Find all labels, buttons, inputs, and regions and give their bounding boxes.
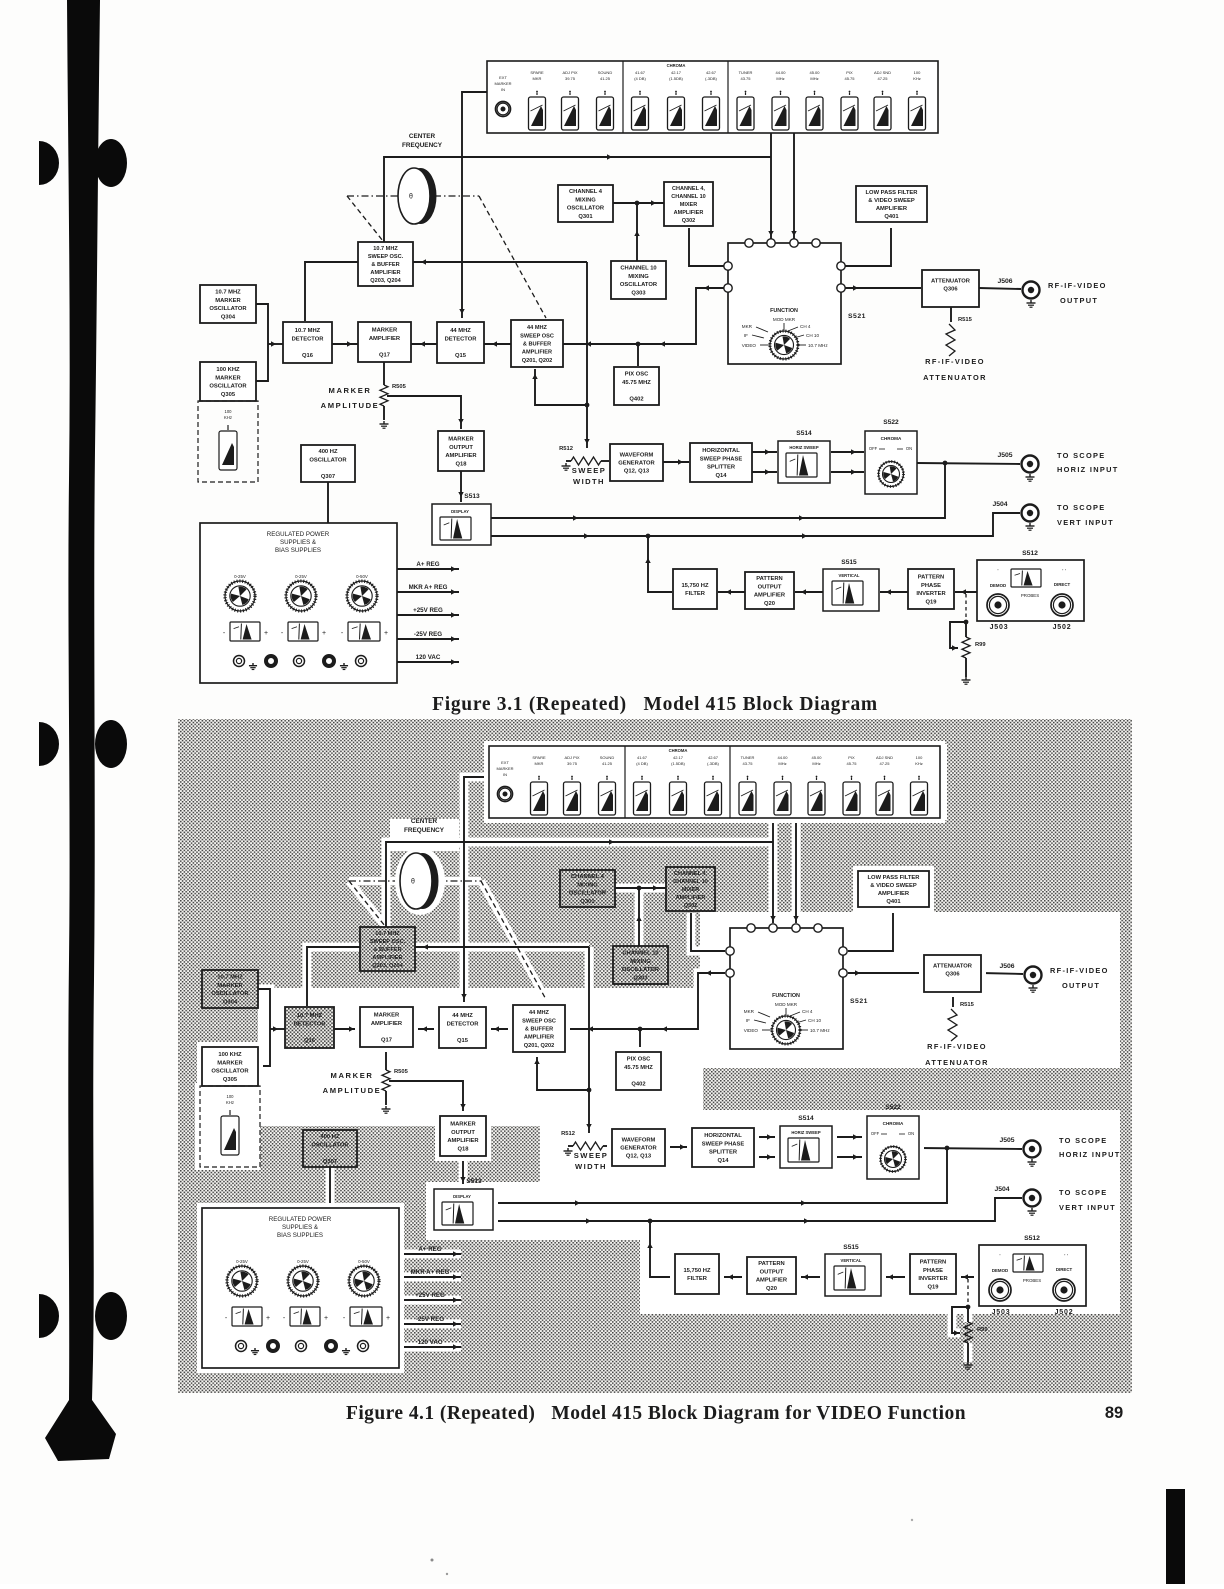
svg-text:Q304: Q304 bbox=[221, 314, 236, 320]
svg-text:R515: R515 bbox=[960, 1002, 975, 1008]
svg-text:REGULATED POWER: REGULATED POWER bbox=[269, 1216, 332, 1223]
svg-text:S513: S513 bbox=[466, 1178, 482, 1185]
svg-text:MOD MKR: MOD MKR bbox=[775, 1002, 798, 1007]
svg-text:S514: S514 bbox=[796, 430, 812, 437]
svg-text:R505: R505 bbox=[394, 1069, 409, 1075]
svg-text:ATTENUATOR: ATTENUATOR bbox=[925, 1058, 989, 1067]
svg-text:+: + bbox=[322, 630, 326, 637]
svg-text:AMPLITUDE: AMPLITUDE bbox=[321, 401, 380, 410]
svg-text:100 KHZ: 100 KHZ bbox=[216, 367, 240, 373]
svg-text:100: 100 bbox=[225, 409, 233, 414]
svg-text:FUNCTION: FUNCTION bbox=[772, 993, 800, 999]
svg-text:+: + bbox=[264, 630, 268, 637]
svg-text:(1.5DB): (1.5DB) bbox=[671, 761, 685, 766]
svg-text:SWEEP OSC.: SWEEP OSC. bbox=[370, 939, 406, 945]
svg-text:CHROMA: CHROMA bbox=[667, 63, 686, 68]
svg-text:10.7 MHZ: 10.7 MHZ bbox=[217, 975, 243, 981]
svg-text:CENTER: CENTER bbox=[409, 133, 436, 140]
svg-text:Q20: Q20 bbox=[764, 601, 775, 607]
svg-text:IF: IF bbox=[744, 333, 748, 338]
svg-text:42.67: 42.67 bbox=[706, 70, 717, 75]
svg-text:DIRECT: DIRECT bbox=[1056, 1267, 1073, 1272]
svg-text:MARKER: MARKER bbox=[331, 1071, 374, 1080]
svg-text:DISPLAY: DISPLAY bbox=[453, 1194, 471, 1199]
svg-text:SWEEP OSC: SWEEP OSC bbox=[522, 1018, 556, 1024]
svg-text:INVERTER: INVERTER bbox=[916, 591, 946, 597]
svg-text:& VIDEO SWEEP: & VIDEO SWEEP bbox=[870, 883, 917, 889]
svg-text:MHz: MHz bbox=[776, 76, 784, 81]
svg-text:41.67: 41.67 bbox=[637, 755, 648, 760]
svg-text:FUNCTION: FUNCTION bbox=[770, 308, 798, 314]
svg-text:PATTERN: PATTERN bbox=[918, 575, 945, 581]
svg-text:' ': ' ' bbox=[1062, 569, 1065, 575]
svg-text:Q302: Q302 bbox=[684, 903, 697, 909]
svg-text:CHROMA: CHROMA bbox=[669, 748, 688, 753]
svg-text:& BUFFER: & BUFFER bbox=[523, 341, 551, 347]
svg-text:PIX OSC: PIX OSC bbox=[625, 372, 649, 378]
svg-text:MARKER: MARKER bbox=[494, 81, 511, 86]
svg-text:θ: θ bbox=[409, 194, 413, 201]
svg-text:Q203, Q204: Q203, Q204 bbox=[370, 278, 401, 284]
svg-text:DISPLAY: DISPLAY bbox=[451, 509, 469, 514]
svg-text:PATTERN: PATTERN bbox=[756, 576, 783, 582]
svg-text:ATTENUATOR: ATTENUATOR bbox=[933, 963, 973, 969]
svg-text:0-50V: 0-50V bbox=[358, 1259, 370, 1264]
svg-text:RF-IF-VIDEO: RF-IF-VIDEO bbox=[1050, 966, 1109, 975]
svg-text:(1.5DB): (1.5DB) bbox=[669, 76, 683, 81]
svg-text:S521: S521 bbox=[848, 313, 866, 320]
svg-text:A+ REG: A+ REG bbox=[416, 561, 439, 568]
svg-text:Q201, Q202: Q201, Q202 bbox=[524, 1043, 554, 1049]
svg-text:WIDTH: WIDTH bbox=[575, 1162, 607, 1171]
svg-text:39.75: 39.75 bbox=[567, 761, 578, 766]
svg-text:(4 DB): (4 DB) bbox=[636, 761, 648, 766]
svg-text:J506: J506 bbox=[999, 963, 1014, 970]
svg-text:AMPLIFIER: AMPLIFIER bbox=[447, 1138, 479, 1144]
svg-text:Q17: Q17 bbox=[379, 352, 390, 358]
svg-text:RF-IF-VIDEO: RF-IF-VIDEO bbox=[927, 1042, 987, 1051]
svg-text:Q306: Q306 bbox=[945, 972, 960, 978]
svg-text:TUNER: TUNER bbox=[739, 70, 753, 75]
svg-text:DEMOD: DEMOD bbox=[992, 1268, 1008, 1273]
svg-text:VIDEO: VIDEO bbox=[742, 343, 757, 348]
svg-text:PHASE: PHASE bbox=[921, 583, 941, 589]
svg-text:MARKER: MARKER bbox=[450, 1122, 476, 1128]
svg-text:45.75: 45.75 bbox=[846, 761, 857, 766]
svg-text:AMPLIFIER: AMPLIFIER bbox=[369, 336, 401, 342]
svg-text:SOUND: SOUND bbox=[600, 755, 615, 760]
svg-text:& VIDEO SWEEP: & VIDEO SWEEP bbox=[868, 198, 915, 204]
svg-text:MIXER: MIXER bbox=[682, 887, 699, 893]
svg-text:WAVEFORM: WAVEFORM bbox=[622, 1137, 656, 1143]
svg-text:MARKER: MARKER bbox=[329, 386, 372, 395]
svg-text:DETECTOR: DETECTOR bbox=[445, 336, 478, 342]
svg-text:J503: J503 bbox=[990, 624, 1009, 631]
svg-text:PIX: PIX bbox=[846, 70, 853, 75]
svg-text:MHz: MHz bbox=[810, 76, 818, 81]
svg-text:Q302: Q302 bbox=[682, 218, 695, 224]
svg-text:Q402: Q402 bbox=[629, 396, 643, 402]
svg-text:Q12, Q13: Q12, Q13 bbox=[626, 1154, 652, 1160]
svg-text:120 VAC: 120 VAC bbox=[418, 1339, 443, 1346]
svg-text:Figure 3.1 (Repeated) Model: Figure 3.1 (Repeated) Model 415 Block Di… bbox=[432, 694, 878, 715]
svg-text:IN: IN bbox=[501, 87, 505, 92]
svg-text:Q306: Q306 bbox=[943, 287, 958, 293]
svg-text:Q14: Q14 bbox=[718, 1158, 730, 1164]
svg-text:Q19: Q19 bbox=[926, 599, 938, 605]
svg-text:AMPLIFIER: AMPLIFIER bbox=[754, 593, 786, 599]
svg-text:44.00: 44.00 bbox=[777, 755, 788, 760]
svg-text:PATTERN: PATTERN bbox=[758, 1261, 785, 1267]
svg-text:J506: J506 bbox=[997, 278, 1012, 285]
svg-text:CHANNEL 10: CHANNEL 10 bbox=[620, 266, 656, 272]
svg-text:AMPLIFIER: AMPLIFIER bbox=[371, 1021, 403, 1027]
svg-text:45.00: 45.00 bbox=[809, 70, 820, 75]
svg-text:Q303: Q303 bbox=[633, 975, 648, 981]
svg-text:MARKER: MARKER bbox=[496, 766, 513, 771]
svg-text:MARKER: MARKER bbox=[374, 1013, 400, 1019]
svg-text:-25V REG: -25V REG bbox=[416, 1316, 444, 1323]
svg-text:OUTPUT: OUTPUT bbox=[1060, 296, 1098, 305]
svg-text:TUNER: TUNER bbox=[741, 755, 755, 760]
svg-text:100: 100 bbox=[914, 70, 921, 75]
svg-text:KHz: KHz bbox=[224, 415, 232, 420]
svg-text:MKR A+ REG: MKR A+ REG bbox=[409, 584, 448, 591]
svg-text:0-25V: 0-25V bbox=[234, 574, 246, 579]
svg-text:SWEEP OSC: SWEEP OSC bbox=[520, 333, 554, 339]
svg-text:CHANNEL 4: CHANNEL 4 bbox=[569, 189, 603, 195]
svg-text:S522: S522 bbox=[885, 1104, 901, 1111]
svg-text:J504: J504 bbox=[994, 1186, 1009, 1193]
svg-text:47.25: 47.25 bbox=[877, 76, 888, 81]
svg-text:MOD MKR: MOD MKR bbox=[773, 317, 796, 322]
svg-text:IN: IN bbox=[503, 772, 507, 777]
svg-text:J505: J505 bbox=[997, 452, 1012, 459]
svg-text:AMPLIFIER: AMPLIFIER bbox=[878, 891, 910, 897]
svg-text:OUTPUT: OUTPUT bbox=[449, 445, 473, 451]
svg-text:WIDTH: WIDTH bbox=[573, 477, 605, 486]
svg-text:IF: IF bbox=[746, 1018, 750, 1023]
svg-text:S515: S515 bbox=[841, 559, 857, 566]
svg-text:WAVEFORM: WAVEFORM bbox=[620, 452, 654, 458]
svg-text:R99: R99 bbox=[977, 1327, 988, 1333]
svg-text:120 VAC: 120 VAC bbox=[416, 654, 441, 661]
svg-text:10.7 MHz: 10.7 MHz bbox=[808, 343, 828, 348]
svg-text:44.00: 44.00 bbox=[775, 70, 786, 75]
svg-text:Q307: Q307 bbox=[323, 1159, 337, 1165]
svg-text:PROBES: PROBES bbox=[1021, 593, 1039, 598]
svg-text:43.75: 43.75 bbox=[742, 761, 753, 766]
svg-text:47.25: 47.25 bbox=[879, 761, 890, 766]
svg-text:AMPLIFIER: AMPLIFIER bbox=[674, 210, 704, 216]
svg-text:MARKER: MARKER bbox=[215, 375, 241, 381]
svg-text:& BUFFER: & BUFFER bbox=[525, 1026, 553, 1032]
svg-text:10.7 MHZ: 10.7 MHZ bbox=[373, 246, 398, 252]
svg-text:& BUFFER: & BUFFER bbox=[373, 947, 401, 953]
svg-text:ON: ON bbox=[908, 1131, 914, 1136]
svg-text:MIXER: MIXER bbox=[680, 202, 697, 208]
svg-text:J502: J502 bbox=[1055, 1309, 1074, 1316]
svg-text:ADJ PIX: ADJ PIX bbox=[562, 70, 577, 75]
svg-text:S513: S513 bbox=[464, 493, 480, 500]
svg-text:FREQUENCY: FREQUENCY bbox=[402, 142, 443, 149]
svg-text:OSCILLATOR: OSCILLATOR bbox=[209, 384, 247, 390]
svg-text:100: 100 bbox=[227, 1094, 235, 1099]
svg-text:MARKER: MARKER bbox=[448, 437, 474, 443]
svg-text:10.7 MHZ: 10.7 MHZ bbox=[215, 290, 241, 296]
svg-text:ADJ PIX: ADJ PIX bbox=[564, 755, 579, 760]
svg-text:OSCILLATOR: OSCILLATOR bbox=[620, 282, 658, 288]
svg-text:SUPPLIES &: SUPPLIES & bbox=[280, 539, 317, 546]
svg-text:HORIZONTAL: HORIZONTAL bbox=[702, 448, 740, 454]
svg-text:100 KHZ: 100 KHZ bbox=[218, 1052, 242, 1058]
svg-text:R99: R99 bbox=[975, 642, 986, 648]
svg-text:AMPLITUDE: AMPLITUDE bbox=[323, 1086, 382, 1095]
svg-text:(4 DB): (4 DB) bbox=[634, 76, 646, 81]
svg-text:': ' bbox=[998, 569, 999, 575]
svg-text:ATTENUATOR: ATTENUATOR bbox=[931, 278, 971, 284]
svg-text:TO SCOPE: TO SCOPE bbox=[1059, 1188, 1107, 1197]
svg-text:SWEEP: SWEEP bbox=[574, 1151, 608, 1160]
svg-text:TO SCOPE: TO SCOPE bbox=[1057, 451, 1105, 460]
svg-text:OSCILLATOR: OSCILLATOR bbox=[211, 1069, 249, 1075]
svg-text:Q307: Q307 bbox=[321, 474, 335, 480]
svg-text:Q201, Q202: Q201, Q202 bbox=[522, 358, 552, 364]
svg-text:S514: S514 bbox=[798, 1115, 814, 1122]
svg-text:Q16: Q16 bbox=[302, 353, 314, 359]
svg-text:Q14: Q14 bbox=[716, 473, 728, 479]
svg-text:OSCILLATOR: OSCILLATOR bbox=[622, 967, 660, 973]
svg-text:SPLITTER: SPLITTER bbox=[709, 1150, 738, 1156]
svg-text:OUTPUT: OUTPUT bbox=[1062, 981, 1100, 990]
svg-text:RF-IF-VIDEO: RF-IF-VIDEO bbox=[1048, 281, 1107, 290]
svg-text:44 MHZ: 44 MHZ bbox=[529, 1010, 549, 1016]
svg-text:43.75: 43.75 bbox=[740, 76, 751, 81]
svg-text:MIXING: MIXING bbox=[628, 274, 649, 280]
svg-text:+: + bbox=[384, 630, 388, 637]
svg-text:KHz: KHz bbox=[913, 76, 921, 81]
svg-text:S521: S521 bbox=[850, 998, 868, 1005]
svg-text:+: + bbox=[324, 1315, 328, 1322]
svg-text:41.25: 41.25 bbox=[600, 76, 611, 81]
svg-text:KHz: KHz bbox=[226, 1100, 234, 1105]
svg-text:AMPLIFIER: AMPLIFIER bbox=[876, 206, 908, 212]
svg-text:MHz: MHz bbox=[812, 761, 820, 766]
svg-text:Q18: Q18 bbox=[458, 1146, 470, 1152]
svg-text:MIXING: MIXING bbox=[630, 959, 651, 965]
svg-text:HORIZ INPUT: HORIZ INPUT bbox=[1059, 1150, 1121, 1159]
svg-text:Q203, Q204: Q203, Q204 bbox=[372, 963, 403, 969]
svg-text:AMPLIFIER: AMPLIFIER bbox=[370, 270, 400, 276]
svg-text:MARKER: MARKER bbox=[217, 983, 243, 989]
svg-text:OFF: OFF bbox=[869, 446, 878, 451]
svg-text:Q16: Q16 bbox=[304, 1038, 316, 1044]
svg-text:Q18: Q18 bbox=[456, 461, 468, 467]
svg-text:Q15: Q15 bbox=[457, 1038, 469, 1044]
svg-text:HORIZ SWEEP: HORIZ SWEEP bbox=[791, 1130, 821, 1135]
svg-text:J502: J502 bbox=[1053, 624, 1072, 631]
svg-text:DETECTOR: DETECTOR bbox=[292, 336, 325, 342]
svg-text:44 MHZ: 44 MHZ bbox=[450, 328, 471, 334]
svg-text:100: 100 bbox=[916, 755, 923, 760]
svg-text:SPARE: SPARE bbox=[532, 755, 546, 760]
svg-text:DETECTOR: DETECTOR bbox=[447, 1021, 480, 1027]
svg-text:EXT: EXT bbox=[501, 760, 509, 765]
svg-text:SWEEP OSC.: SWEEP OSC. bbox=[368, 254, 404, 260]
svg-text:MARKER: MARKER bbox=[372, 328, 398, 334]
svg-text:15,750 HZ: 15,750 HZ bbox=[681, 583, 709, 589]
svg-text:θ: θ bbox=[411, 879, 415, 886]
svg-text:AMPLIFIER: AMPLIFIER bbox=[445, 453, 477, 459]
svg-text:Q304: Q304 bbox=[223, 999, 238, 1005]
svg-text:KHz: KHz bbox=[915, 761, 923, 766]
svg-text:400 HZ: 400 HZ bbox=[318, 449, 337, 455]
svg-text:FILTER: FILTER bbox=[687, 1276, 708, 1282]
svg-text:' ': ' ' bbox=[1064, 1254, 1067, 1260]
svg-text:CENTER: CENTER bbox=[411, 818, 438, 825]
svg-text:BIAS SUPPLIES: BIAS SUPPLIES bbox=[277, 1232, 323, 1239]
svg-text:44 MHZ: 44 MHZ bbox=[527, 325, 547, 331]
svg-text:45.75: 45.75 bbox=[844, 76, 855, 81]
svg-text:45.75 MHZ: 45.75 MHZ bbox=[622, 380, 651, 386]
svg-text:Q17: Q17 bbox=[381, 1037, 392, 1043]
svg-text:PHASE: PHASE bbox=[923, 1268, 943, 1274]
svg-text:CHANNEL 4,: CHANNEL 4, bbox=[674, 871, 707, 877]
svg-text:EXT: EXT bbox=[499, 75, 507, 80]
svg-text:MKR: MKR bbox=[533, 76, 542, 81]
svg-text:SWEEP PHASE: SWEEP PHASE bbox=[700, 456, 743, 462]
svg-text:PIX OSC: PIX OSC bbox=[627, 1057, 651, 1063]
svg-text:DIRECT: DIRECT bbox=[1054, 582, 1071, 587]
svg-text:0-25V: 0-25V bbox=[297, 1259, 309, 1264]
svg-text:LOW PASS FILTER: LOW PASS FILTER bbox=[866, 190, 919, 196]
svg-text:J505: J505 bbox=[999, 1137, 1014, 1144]
svg-text:AMPLIFIER: AMPLIFIER bbox=[372, 955, 402, 961]
svg-text:OUTPUT: OUTPUT bbox=[760, 1269, 784, 1275]
svg-text:MIXING: MIXING bbox=[577, 882, 598, 888]
svg-text:CHANNEL 10: CHANNEL 10 bbox=[622, 951, 658, 957]
svg-text:(-3DB): (-3DB) bbox=[705, 76, 717, 81]
svg-text:CH 10: CH 10 bbox=[806, 333, 819, 338]
svg-text:PATTERN: PATTERN bbox=[920, 1260, 947, 1266]
svg-text:GENERATOR: GENERATOR bbox=[618, 461, 655, 467]
svg-text:CHROMA: CHROMA bbox=[881, 436, 902, 441]
svg-text:ON: ON bbox=[906, 446, 912, 451]
svg-text:S522: S522 bbox=[883, 419, 899, 426]
svg-text:OSCILLATOR: OSCILLATOR bbox=[209, 306, 247, 312]
svg-text:J503: J503 bbox=[992, 1309, 1011, 1316]
svg-text:SWEEP PHASE: SWEEP PHASE bbox=[702, 1141, 745, 1147]
svg-text:39.75: 39.75 bbox=[565, 76, 576, 81]
svg-text:HORIZ SWEEP: HORIZ SWEEP bbox=[789, 445, 819, 450]
svg-text:R512: R512 bbox=[559, 446, 573, 452]
svg-text:Figure 4.1 (Repeated) Model: Figure 4.1 (Repeated) Model 415 Block Di… bbox=[346, 1403, 966, 1424]
svg-text:TO SCOPE: TO SCOPE bbox=[1059, 1136, 1107, 1145]
svg-text:10.7 MHZ: 10.7 MHZ bbox=[297, 1013, 323, 1019]
svg-text:400 HZ: 400 HZ bbox=[320, 1134, 339, 1140]
svg-text:CH 4: CH 4 bbox=[800, 324, 811, 329]
svg-text:PIX: PIX bbox=[848, 755, 855, 760]
svg-text:PROBES: PROBES bbox=[1023, 1278, 1041, 1283]
svg-text:41.25: 41.25 bbox=[602, 761, 613, 766]
svg-text:89: 89 bbox=[1105, 1404, 1123, 1422]
svg-text:OSCILLATOR: OSCILLATOR bbox=[311, 1142, 349, 1148]
svg-text:R512: R512 bbox=[561, 1131, 575, 1137]
svg-text:Q305: Q305 bbox=[221, 392, 236, 398]
svg-text:S512: S512 bbox=[1024, 1235, 1040, 1242]
svg-text:42.67: 42.67 bbox=[708, 755, 719, 760]
svg-text:BIAS SUPPLIES: BIAS SUPPLIES bbox=[275, 547, 321, 554]
svg-text:R515: R515 bbox=[958, 317, 973, 323]
svg-text:OSCILLATOR: OSCILLATOR bbox=[309, 457, 347, 463]
svg-text:CHANNEL 10: CHANNEL 10 bbox=[673, 879, 707, 885]
svg-text:SPLITTER: SPLITTER bbox=[707, 465, 736, 471]
svg-text:LOW PASS FILTER: LOW PASS FILTER bbox=[868, 875, 921, 881]
svg-text:S515: S515 bbox=[843, 1244, 859, 1251]
svg-text:HORIZONTAL: HORIZONTAL bbox=[704, 1133, 742, 1139]
svg-text:Q401: Q401 bbox=[884, 214, 899, 220]
svg-text:10.7 MHZ: 10.7 MHZ bbox=[375, 931, 400, 937]
svg-text:45.00: 45.00 bbox=[811, 755, 822, 760]
svg-text:A+ REG: A+ REG bbox=[418, 1246, 441, 1253]
svg-text:AMPLIFIER: AMPLIFIER bbox=[524, 1035, 554, 1041]
svg-text:0-25V: 0-25V bbox=[295, 574, 307, 579]
svg-text:FREQUENCY: FREQUENCY bbox=[404, 827, 445, 834]
svg-text:42.17: 42.17 bbox=[671, 70, 682, 75]
svg-text:CHANNEL 10: CHANNEL 10 bbox=[671, 194, 705, 200]
svg-text:ADJ SND: ADJ SND bbox=[876, 755, 893, 760]
svg-text:SOUND: SOUND bbox=[598, 70, 613, 75]
svg-text:CHROMA: CHROMA bbox=[883, 1121, 904, 1126]
svg-text:CH 4: CH 4 bbox=[802, 1009, 813, 1014]
svg-text:Q301: Q301 bbox=[578, 214, 593, 220]
svg-text:15,750 HZ: 15,750 HZ bbox=[683, 1268, 711, 1274]
svg-text:CHANNEL 4,: CHANNEL 4, bbox=[672, 186, 705, 192]
svg-text:+25V REG: +25V REG bbox=[413, 607, 443, 614]
svg-text:42.17: 42.17 bbox=[673, 755, 684, 760]
svg-text:Q12, Q13: Q12, Q13 bbox=[624, 469, 650, 475]
svg-text:Q15: Q15 bbox=[455, 353, 467, 359]
svg-text:VERT INPUT: VERT INPUT bbox=[1059, 1203, 1116, 1212]
svg-text:Q19: Q19 bbox=[928, 1284, 940, 1290]
svg-text:SPARE: SPARE bbox=[530, 70, 544, 75]
svg-text:OUTPUT: OUTPUT bbox=[451, 1130, 475, 1136]
svg-text:S512: S512 bbox=[1022, 550, 1038, 557]
svg-text:INVERTER: INVERTER bbox=[918, 1276, 948, 1282]
svg-text:VERTICAL: VERTICAL bbox=[841, 1258, 862, 1263]
svg-text:AMPLIFIER: AMPLIFIER bbox=[756, 1278, 788, 1284]
svg-text:+: + bbox=[266, 1315, 270, 1322]
svg-text:OSCILLATOR: OSCILLATOR bbox=[211, 991, 249, 997]
svg-text:OSCILLATOR: OSCILLATOR bbox=[567, 206, 605, 212]
svg-text:ADJ SND: ADJ SND bbox=[874, 70, 891, 75]
svg-text:MKR: MKR bbox=[742, 324, 753, 329]
svg-text:Q401: Q401 bbox=[886, 899, 901, 905]
svg-text:+: + bbox=[386, 1315, 390, 1322]
svg-text:J504: J504 bbox=[992, 501, 1007, 508]
svg-text:41.67: 41.67 bbox=[635, 70, 646, 75]
svg-text:': ' bbox=[1000, 1254, 1001, 1260]
svg-text:& BUFFER: & BUFFER bbox=[371, 262, 399, 268]
svg-text:R505: R505 bbox=[392, 384, 407, 390]
svg-text:VIDEO: VIDEO bbox=[744, 1028, 759, 1033]
svg-text:(-3DB): (-3DB) bbox=[707, 761, 719, 766]
svg-text:SWEEP: SWEEP bbox=[572, 466, 606, 475]
svg-text:0-50V: 0-50V bbox=[356, 574, 368, 579]
svg-text:MKR: MKR bbox=[535, 761, 544, 766]
svg-text:FILTER: FILTER bbox=[685, 591, 706, 597]
svg-text:0-25V: 0-25V bbox=[236, 1259, 248, 1264]
